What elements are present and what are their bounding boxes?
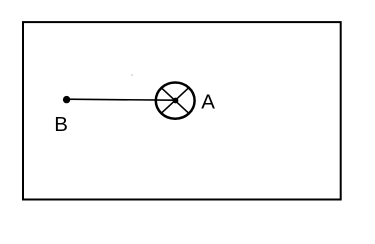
svg-text:A: A bbox=[201, 91, 215, 114]
svg-text:B: B bbox=[54, 113, 68, 136]
